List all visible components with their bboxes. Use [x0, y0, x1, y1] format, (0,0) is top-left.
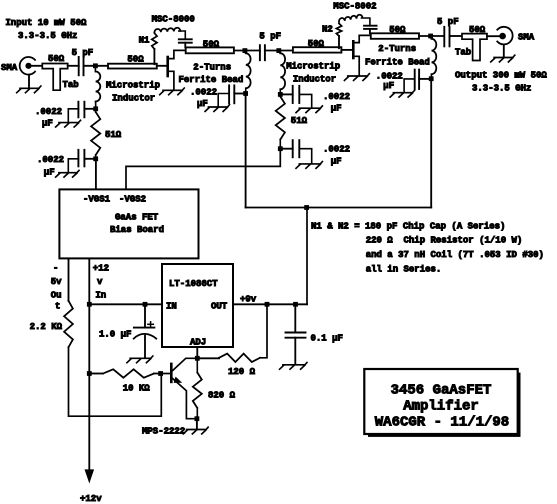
- svg-text:Inductor: Inductor: [112, 93, 155, 103]
- ground of C11: [280, 363, 307, 370]
- ground of R5 emitter: [196, 419, 198, 430]
- svg-text:+9v: +9v: [240, 294, 257, 304]
- node R junction Q3 base: [158, 371, 163, 376]
- wire node F to supply rail: [430, 79, 432, 208]
- module U1 GaAs FET bias board: [59, 189, 198, 258]
- wire node H to bias board VGS1: [95, 159, 97, 190]
- node S junction +12 at 10K: [87, 371, 92, 376]
- svg-text:2.2 KΩ: 2.2 KΩ: [30, 322, 63, 332]
- ground of C9: [296, 162, 322, 169]
- microstrip line 50-ohm TL2 drain Q1: [186, 47, 234, 53]
- svg-text:.0022: .0022: [37, 155, 64, 165]
- ground of C6: [56, 170, 79, 177]
- svg-text:Microstrip: Microstrip: [106, 80, 160, 90]
- node J junction R2 bottom: [278, 146, 283, 151]
- svg-text:3456 GaAsFET: 3456 GaAsFET: [391, 383, 492, 399]
- ground of C10: [127, 356, 153, 363]
- ground of Q2 source: [344, 74, 369, 81]
- svg-text:MSC-8000: MSC-8000: [152, 15, 195, 25]
- ground of C7: [390, 90, 414, 97]
- svg-text:50Ω: 50Ω: [127, 55, 144, 65]
- node H junction R1 bottom: [93, 156, 98, 161]
- svg-text:N1 & N2 = 180 pF Chip Cap (A S: N1 & N2 = 180 pF Chip Cap (A Series): [311, 221, 505, 231]
- wire N2 to gate node: [338, 36, 340, 48]
- svg-text:3.3-3.5 GHz: 3.3-3.5 GHz: [18, 31, 77, 41]
- ground of C8: [296, 106, 322, 113]
- microstrip line 50-ohm TL1: [108, 64, 157, 69]
- connector J1 SMA input: [20, 57, 35, 75]
- svg-text:-: -: [53, 264, 58, 274]
- svg-text:N2: N2: [322, 24, 333, 34]
- svg-text:Inductor: Inductor: [293, 75, 336, 85]
- wire TL3 to Q2 gate: [341, 49, 353, 51]
- wire TL1 to Q1 gate: [157, 65, 168, 67]
- svg-text:In: In: [95, 290, 106, 300]
- svg-text:µF: µF: [197, 99, 208, 109]
- resistor R1 51-ohm gate1: [95, 109, 97, 112]
- wire node D to supply rail: [245, 94, 247, 208]
- svg-text:SMA: SMA: [518, 32, 535, 42]
- svg-text:IN: IN: [166, 302, 177, 312]
- svg-text:1.0 µF: 1.0 µF: [99, 329, 131, 339]
- svg-text:Input 10 mW 50Ω: Input 10 mW 50Ω: [5, 18, 87, 28]
- resistor R5 820-ohm: [196, 358, 198, 372]
- wire Tab1 to C1: [68, 65, 79, 67]
- svg-text:ADJ: ADJ: [190, 337, 206, 347]
- svg-text:2-Turns: 2-Turns: [193, 62, 231, 72]
- node I junction L2 bottom: [278, 92, 283, 97]
- svg-text:5 pF: 5 pF: [437, 17, 459, 27]
- wire bias board +12 input: [88, 258, 90, 470]
- node B junction: [243, 48, 248, 53]
- wire Tab2 to J2: [487, 35, 500, 37]
- svg-text:Tab: Tab: [455, 47, 471, 57]
- capacitor C1 5 pF input: [78, 57, 80, 75]
- microstrip Tab2 50-ohm with tuning tab: [462, 34, 487, 61]
- node C junction: [276, 48, 281, 53]
- svg-text:and a 37 nH Coil (7T .053 ID #: and a 37 nH Coil (7T .053 ID #30): [366, 250, 544, 260]
- svg-text:-VGS1: -VGS1: [83, 194, 111, 204]
- svg-text:+12: +12: [93, 264, 109, 274]
- svg-text:LT-1086CT: LT-1086CT: [169, 279, 218, 289]
- wire 10K to base: [89, 373, 103, 375]
- resistor R2 51-ohm gate2: [279, 94, 281, 96]
- svg-text:5v: 5v: [51, 277, 62, 287]
- svg-text:all in Series.: all in Series.: [366, 264, 442, 274]
- capacitor C2 5 pF interstage: [259, 45, 261, 60]
- network N1 feedback capacitor part: [179, 38, 192, 40]
- wire U2 OUT +9v: [233, 303, 307, 305]
- svg-text:+12v: +12v: [80, 494, 102, 504]
- ground of Q1 source: [160, 88, 185, 95]
- node D junction FB1 bottom: [243, 91, 248, 96]
- network N2 feedback coil part: [339, 15, 363, 22]
- wire C3 to Tab2: [450, 35, 463, 37]
- capacitor C8 .0022 uF gate2 top: [292, 86, 294, 103]
- svg-text:Output 300 mW 50Ω: Output 300 mW 50Ω: [455, 71, 547, 81]
- svg-text:.0022: .0022: [376, 71, 403, 81]
- capacitor C3 5 pF output: [443, 27, 445, 46]
- svg-text:µF: µF: [331, 104, 342, 114]
- svg-text:µF: µF: [383, 81, 394, 91]
- wire C2 to node C: [265, 50, 293, 52]
- wire +12 feed arrow: [85, 470, 93, 482]
- svg-text:.0022: .0022: [323, 145, 350, 155]
- node A junction: [93, 63, 98, 68]
- svg-text:220 Ω Chip Resistor (1/10 W): 220 Ω Chip Resistor (1/10 W): [366, 236, 523, 246]
- wire U2 ADJ pin: [196, 347, 198, 358]
- capacitor C6 .0022 uF gate1 bottom: [77, 150, 79, 167]
- svg-text:N1: N1: [139, 36, 150, 46]
- svg-text:50Ω: 50Ω: [48, 54, 65, 64]
- capacitor C4 .0022 uF bypass Q1 drain: [228, 85, 230, 103]
- svg-text:51Ω: 51Ω: [105, 130, 122, 140]
- svg-text:µF: µF: [44, 167, 55, 177]
- svg-text:v: v: [97, 277, 103, 287]
- wire N1 to gate node: [153, 49, 155, 64]
- capacitor C9 .0022 uF gate2 bottom: [292, 140, 294, 157]
- ground of C5: [56, 120, 81, 127]
- node M junction 120-ohm tap: [265, 302, 270, 307]
- svg-text:2-Turns: 2-Turns: [378, 44, 416, 54]
- capacitor C5 .0022 uF gate1 top: [77, 102, 79, 118]
- inductor L1 microstrip inductor shunt: [94, 66, 96, 72]
- svg-text:MSC-8002: MSC-8002: [333, 1, 376, 11]
- svg-text:Ou: Ou: [51, 290, 62, 300]
- svg-text:µF: µF: [331, 156, 342, 166]
- ground of C4: [205, 105, 229, 112]
- node L junction 1.0uF tap: [143, 302, 148, 307]
- svg-text:820 Ω: 820 Ω: [208, 390, 236, 400]
- svg-text:50Ω: 50Ω: [469, 25, 486, 35]
- node N junction 0.1uF tap: [293, 302, 298, 307]
- wire TL4 to C3: [419, 35, 444, 37]
- node F junction FB2 bottom: [429, 76, 434, 81]
- connector J2 SMA output: [497, 27, 512, 45]
- svg-text:Ferrite Bead: Ferrite Bead: [179, 75, 244, 85]
- svg-text:OUT: OUT: [211, 302, 228, 312]
- svg-text:51Ω: 51Ω: [291, 116, 308, 126]
- network N2 feedback capacitor part: [364, 25, 377, 27]
- transistor Q1 GaAsFET: [168, 50, 186, 90]
- svg-text:.0022: .0022: [190, 87, 217, 97]
- note N1 N2 definition: [311, 221, 544, 274]
- capacitor C7 .0022 uF bypass Q2 drain: [414, 70, 416, 89]
- ground of J1: [28, 75, 30, 89]
- wire N2 cap to drain node: [369, 29, 371, 33]
- inductor L2 microstrip inductor shunt stage2: [279, 51, 280, 54]
- svg-text:t: t: [55, 302, 60, 312]
- node E junction: [428, 34, 433, 39]
- svg-text:0.1 µF: 0.1 µF: [311, 333, 343, 343]
- svg-text:Tab: Tab: [63, 80, 79, 90]
- svg-text:Microstrip: Microstrip: [286, 62, 340, 72]
- wire N1 cap to drain node: [184, 43, 186, 48]
- wire +12 to U2 IN: [89, 303, 162, 305]
- node O junction rail: [304, 205, 309, 210]
- transistor Q3 MPS-2222: [171, 358, 197, 418]
- resistor R6 10 Kohm: [103, 369, 154, 377]
- svg-text:SMA: SMA: [1, 63, 18, 73]
- wire drain supply rail: [246, 207, 432, 209]
- svg-text:Bias Board: Bias Board: [110, 225, 164, 235]
- wire ADJ to 120-ohm: [197, 357, 219, 359]
- microstrip Tab1 50-ohm with tuning tab: [42, 64, 67, 91]
- svg-text:.0022: .0022: [323, 92, 350, 102]
- wire R4 to +9v: [260, 304, 267, 358]
- wire TL2 to C2: [234, 50, 260, 52]
- svg-text:50Ω: 50Ω: [389, 25, 406, 35]
- network N1 feedback coil part: [154, 28, 180, 33]
- svg-text:50Ω: 50Ω: [203, 39, 220, 49]
- svg-text:-VGS2: -VGS2: [119, 194, 146, 204]
- wire R3 to Q3 base: [69, 347, 162, 416]
- wire J1 to Tab1: [32, 65, 43, 67]
- svg-text:3.3-3.5 GHz: 3.3-3.5 GHz: [472, 84, 531, 94]
- regulator U2 LT-1086CT: [162, 264, 233, 347]
- svg-text:5 pF: 5 pF: [259, 32, 281, 42]
- svg-text:50Ω: 50Ω: [308, 39, 325, 49]
- transistor Q2 GaAsFET: [353, 35, 371, 76]
- ground of J2: [503, 44, 505, 57]
- microstrip line 50-ohm TL4 drain Q2: [371, 33, 419, 39]
- resistor R3 2.2 Kohm: [64, 301, 73, 347]
- microstrip line 50-ohm TL3 gate Q2: [293, 47, 342, 52]
- wire C1 to node A: [84, 65, 109, 67]
- svg-text:WA6CGR - 11/1/98: WA6CGR - 11/1/98: [375, 415, 509, 431]
- wire bias board -5v output: [68, 258, 70, 300]
- inductor FB1 2-turns ferrite bead choke: [244, 51, 247, 54]
- svg-text:µF: µF: [42, 118, 53, 128]
- resistor R4 120-ohm: [219, 354, 260, 362]
- inductor FB2 2-turns ferrite bead choke output: [430, 36, 433, 39]
- wire +9v riser to drain rail: [306, 208, 308, 305]
- network N2 feedback resistor part: [336, 24, 341, 37]
- node G junction L1 bottom: [93, 106, 98, 111]
- wire node J to bias board VGS2: [126, 149, 280, 190]
- svg-text:Ferrite Bead: Ferrite Bead: [365, 57, 430, 67]
- svg-text:MPS-2222: MPS-2222: [142, 426, 185, 436]
- svg-text:Amplifier: Amplifier: [403, 399, 479, 415]
- network N1 feedback resistor part: [152, 33, 157, 49]
- node P junction ADJ: [195, 356, 200, 361]
- title block: [364, 369, 520, 437]
- svg-text:120 Ω: 120 Ω: [228, 367, 256, 377]
- capacitor C10 1.0 uF tantalum: [134, 304, 157, 357]
- node Q junction emitter/820: [195, 416, 200, 421]
- svg-text:.0022: .0022: [35, 107, 62, 117]
- node K junction +12 at IN: [87, 302, 92, 307]
- svg-text:5 pF: 5 pF: [72, 48, 94, 58]
- svg-text:10 KΩ: 10 KΩ: [123, 383, 151, 393]
- capacitor C11 0.1 uF: [294, 304, 296, 332]
- svg-text:GaAs FET: GaAs FET: [115, 212, 159, 222]
